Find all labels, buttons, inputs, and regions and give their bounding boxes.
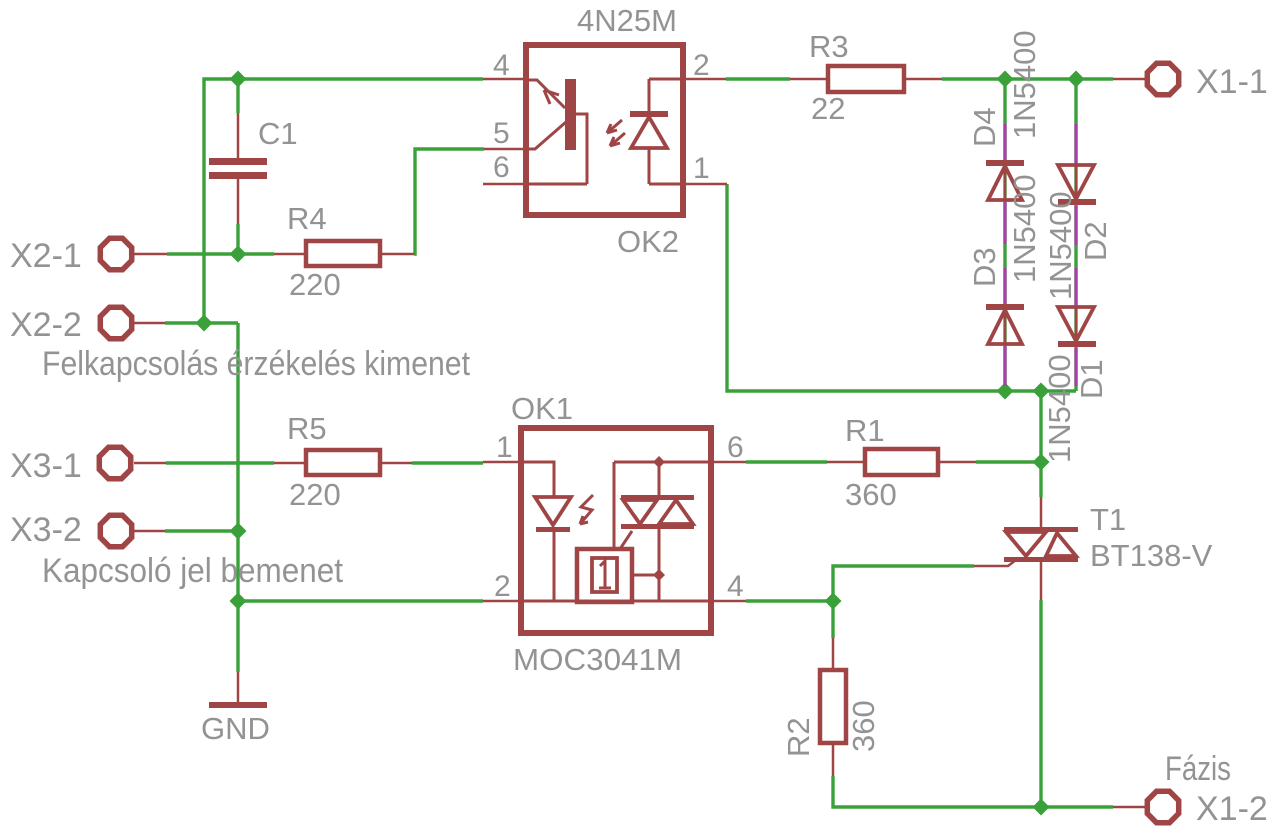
- light arrow 1 OK2: [607, 120, 622, 133]
- wire GND bus vertical: [236, 323, 239, 672]
- svg-text:X1-2: X1-2: [1196, 790, 1268, 828]
- pin OK1 2: [483, 600, 521, 603]
- svg-text:1N5400: 1N5400: [1007, 174, 1042, 283]
- LED lead top OK1: [524, 462, 554, 497]
- resistor R1: [827, 449, 976, 475]
- junction node D4 top: [997, 71, 1014, 88]
- svg-text:Felkapcsolás érzékelés kimenet: Felkapcsolás érzékelés kimenet: [42, 345, 470, 383]
- inner top rail OK1: [614, 461, 711, 464]
- junction node diode bottom to T1: [1033, 383, 1050, 400]
- ground symbol GND: [209, 672, 267, 708]
- svg-text:R2: R2: [781, 717, 816, 757]
- inner bottom rail OK1: [524, 600, 711, 603]
- diode D2: [1058, 124, 1096, 205]
- pin OK1 6: [711, 461, 746, 464]
- LED cathode bar OK2: [630, 111, 668, 117]
- svg-text:2: 2: [693, 49, 710, 82]
- wire OK1 pin2 row: [238, 599, 483, 602]
- junction node D3 bottom: [997, 383, 1014, 400]
- triac left triangle OK1: [623, 500, 657, 524]
- pad X2-2: [100, 307, 131, 338]
- diode D4: [986, 124, 1024, 200]
- pin overlay D3 bottom: [1003, 346, 1006, 386]
- optocoupler OK2 box: [526, 45, 683, 215]
- wire C1 bottom lead net: [236, 224, 239, 254]
- triac T1: [974, 497, 1078, 600]
- svg-text:OK1: OK1: [511, 391, 573, 426]
- driver box OK1: [577, 549, 632, 602]
- junction node X2-2 left: [196, 315, 213, 332]
- diode D1: [1058, 268, 1096, 347]
- wire C1 top lead net: [236, 79, 239, 113]
- pin OK1 1: [483, 461, 521, 464]
- triac right triangle OK1: [659, 500, 693, 524]
- wire OK2 pin2 to R3: [726, 77, 790, 80]
- triac vertical bottom OK1: [658, 529, 661, 601]
- svg-text:1N5400: 1N5400: [1042, 354, 1077, 463]
- svg-text:R3: R3: [809, 29, 849, 64]
- phototransistor emitter diagonal OK2: [523, 80, 565, 108]
- svg-text:1: 1: [496, 431, 513, 464]
- pin overlay D4 top: [1003, 124, 1006, 160]
- resistor R2: [820, 638, 846, 776]
- svg-text:BT138-V: BT138-V: [1090, 538, 1213, 573]
- pad X1-2: [1147, 791, 1178, 822]
- driver feed vertical OK1: [613, 462, 616, 549]
- wire R4 to OK2 pin5: [414, 149, 484, 254]
- svg-text:D3: D3: [967, 247, 1002, 287]
- capacitor C1: [209, 113, 267, 224]
- svg-text:X2-1: X2-1: [10, 237, 82, 275]
- svg-text:6: 6: [727, 431, 744, 464]
- svg-text:Kapcsoló jel bemenet: Kapcsoló jel bemenet: [42, 552, 344, 590]
- triac bottom bar OK1: [621, 524, 694, 529]
- svg-text:X1-1: X1-1: [1196, 63, 1268, 101]
- wire X3-1 row: [166, 461, 274, 464]
- driver digit 1 OK1: [599, 561, 611, 588]
- wire R5 to OK1 pin1: [412, 461, 483, 464]
- wire R1 to T1 node: [976, 460, 1041, 463]
- svg-text:4N25M: 4N25M: [577, 3, 677, 38]
- svg-text:D4: D4: [967, 107, 1002, 147]
- pin overlay D4 bottom: [1003, 202, 1006, 244]
- pin X2-1: [134, 253, 167, 256]
- resistor R3: [790, 66, 942, 92]
- svg-text:220: 220: [289, 477, 341, 512]
- junction node D2 top: [1068, 71, 1085, 88]
- svg-text:X3-1: X3-1: [10, 447, 82, 485]
- wire net N$1 top-left corner segment: [204, 79, 483, 323]
- svg-text:C1: C1: [258, 116, 298, 151]
- LED triangle OK2: [631, 117, 667, 148]
- svg-text:360: 360: [845, 477, 897, 512]
- wire R2 top lead: [831, 601, 834, 638]
- wire OK1 pin4 row: [746, 599, 833, 602]
- svg-text:Fázis: Fázis: [1165, 750, 1231, 788]
- wire X2-2 row: [165, 321, 238, 324]
- svg-text:6: 6: [493, 151, 510, 184]
- svg-text:4: 4: [493, 49, 510, 82]
- svg-text:360: 360: [846, 700, 881, 752]
- pad X2-1: [100, 238, 131, 269]
- pin OK2 4: [483, 78, 523, 81]
- driver gate diagonal OK1: [620, 531, 632, 549]
- wire diode column D2/D1: [1074, 79, 1077, 391]
- triac top bar OK1: [621, 495, 694, 500]
- LED cathode lead OK2: [649, 79, 686, 111]
- svg-text:T1: T1: [1090, 502, 1126, 537]
- pad X3-1: [99, 447, 130, 478]
- light arrow 2 OK2: [610, 133, 625, 146]
- wire R2 bottom to X1-2: [833, 776, 1113, 807]
- pin overlay D1 bottom: [1074, 348, 1077, 386]
- pin overlay D3 top: [1003, 268, 1006, 304]
- triac vertical top OK1: [658, 462, 661, 496]
- wire OK2 pin1 down and across to diodes: [727, 184, 1076, 391]
- pin OK2 5: [484, 148, 523, 151]
- driver inner box OK1: [592, 558, 617, 592]
- phototransistor base bar OK2: [565, 79, 576, 150]
- pin OK2 1: [686, 183, 727, 186]
- wire T1 anode to bottom row: [1039, 600, 1042, 807]
- wire diode bottom to T1 top: [1039, 391, 1042, 497]
- pad X3-2: [100, 515, 131, 546]
- resistor R4: [274, 241, 414, 266]
- pin overlay D2 bottom: [1074, 206, 1077, 245]
- LED anode lead OK2: [649, 148, 686, 184]
- svg-text:R4: R4: [287, 201, 327, 236]
- svg-text:1: 1: [693, 152, 710, 185]
- wire R3 to X1-1: [942, 77, 1113, 80]
- junction node top-left: [230, 71, 247, 88]
- node dot top OK1: [653, 456, 665, 468]
- svg-text:X2-2: X2-2: [10, 306, 82, 344]
- light bolt OK1: [580, 495, 593, 524]
- junction node gate/R2: [825, 593, 842, 610]
- svg-text:220: 220: [289, 267, 341, 302]
- pad X1-1: [1147, 63, 1178, 94]
- LED triangle OK1: [535, 497, 571, 525]
- node dot bottom OK1: [653, 569, 665, 581]
- svg-text:1N5400: 1N5400: [1043, 191, 1078, 300]
- diode D3: [986, 268, 1024, 344]
- pin OK2 6: [483, 183, 523, 186]
- svg-text:4: 4: [727, 570, 744, 603]
- pin OK2 2: [686, 78, 726, 81]
- svg-text:X3-2: X3-2: [10, 511, 82, 549]
- svg-text:1N5400: 1N5400: [1007, 30, 1042, 139]
- svg-text:22: 22: [811, 91, 845, 126]
- LED cathode bar OK1: [536, 527, 570, 532]
- svg-text:D2: D2: [1078, 221, 1113, 261]
- svg-text:GND: GND: [201, 711, 270, 746]
- junction node X3-2: [230, 523, 247, 540]
- optocoupler OK1 box: [521, 428, 711, 633]
- junction node R1/T1: [1033, 454, 1050, 471]
- svg-text:2: 2: [494, 570, 511, 603]
- pin X3-2: [134, 530, 165, 533]
- resistor R5: [274, 450, 412, 475]
- pin OK1 4: [711, 600, 746, 603]
- svg-text:5: 5: [493, 117, 510, 150]
- pin overlay D1 top: [1074, 268, 1077, 305]
- svg-text:D1: D1: [1074, 359, 1109, 399]
- pin X1-2: [1113, 806, 1145, 809]
- junction node T1/X1-2: [1033, 799, 1050, 816]
- pin X1-1: [1113, 78, 1145, 81]
- svg-text:OK2: OK2: [617, 224, 679, 259]
- phototransistor base connection OK2: [523, 114, 587, 184]
- LED lead bottom OK1: [553, 532, 556, 601]
- pin X3-1: [134, 462, 166, 465]
- wire T1 gate: [833, 566, 974, 601]
- phototransistor emitter arrow OK2: [544, 90, 559, 104]
- svg-text:R1: R1: [845, 413, 885, 448]
- pin X2-2: [134, 322, 165, 325]
- wire OK1 pin6 to R1: [746, 460, 827, 463]
- phototransistor collector diagonal OK2: [523, 122, 566, 149]
- svg-text:R5: R5: [287, 411, 327, 446]
- wire X2-1 row: [167, 252, 274, 255]
- junction node X2-1/C1: [230, 246, 247, 263]
- svg-text:MOC3041M: MOC3041M: [513, 642, 682, 677]
- pin overlay D2 top: [1074, 124, 1077, 163]
- wire X3-2 row: [165, 529, 238, 532]
- wire diode column D4/D3: [1003, 79, 1006, 391]
- driver connect OK1: [632, 574, 659, 577]
- junction node OK1 pin2 row: [230, 593, 247, 610]
